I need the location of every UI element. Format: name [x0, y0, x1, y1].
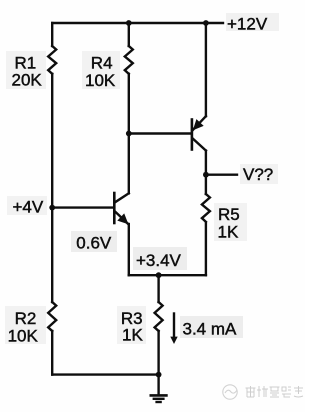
svg-text:1K: 1K [218, 223, 239, 242]
svg-text:10K: 10K [8, 326, 39, 345]
svg-text:+3.4V: +3.4V [136, 251, 182, 270]
svg-text:R2: R2 [15, 309, 37, 328]
svg-text:1K: 1K [122, 326, 143, 345]
svg-text:R4: R4 [91, 53, 113, 72]
svg-text:10K: 10K [85, 71, 116, 90]
svg-text:20K: 20K [12, 71, 43, 90]
svg-text:+4V: +4V [13, 197, 44, 216]
svg-text:R1: R1 [15, 53, 37, 72]
svg-text:V??: V?? [243, 165, 273, 184]
svg-text:+12V: +12V [227, 15, 268, 34]
svg-text:R5: R5 [218, 205, 240, 224]
svg-text:3.4 mA: 3.4 mA [183, 319, 238, 338]
svg-text:0.6V: 0.6V [76, 234, 112, 253]
